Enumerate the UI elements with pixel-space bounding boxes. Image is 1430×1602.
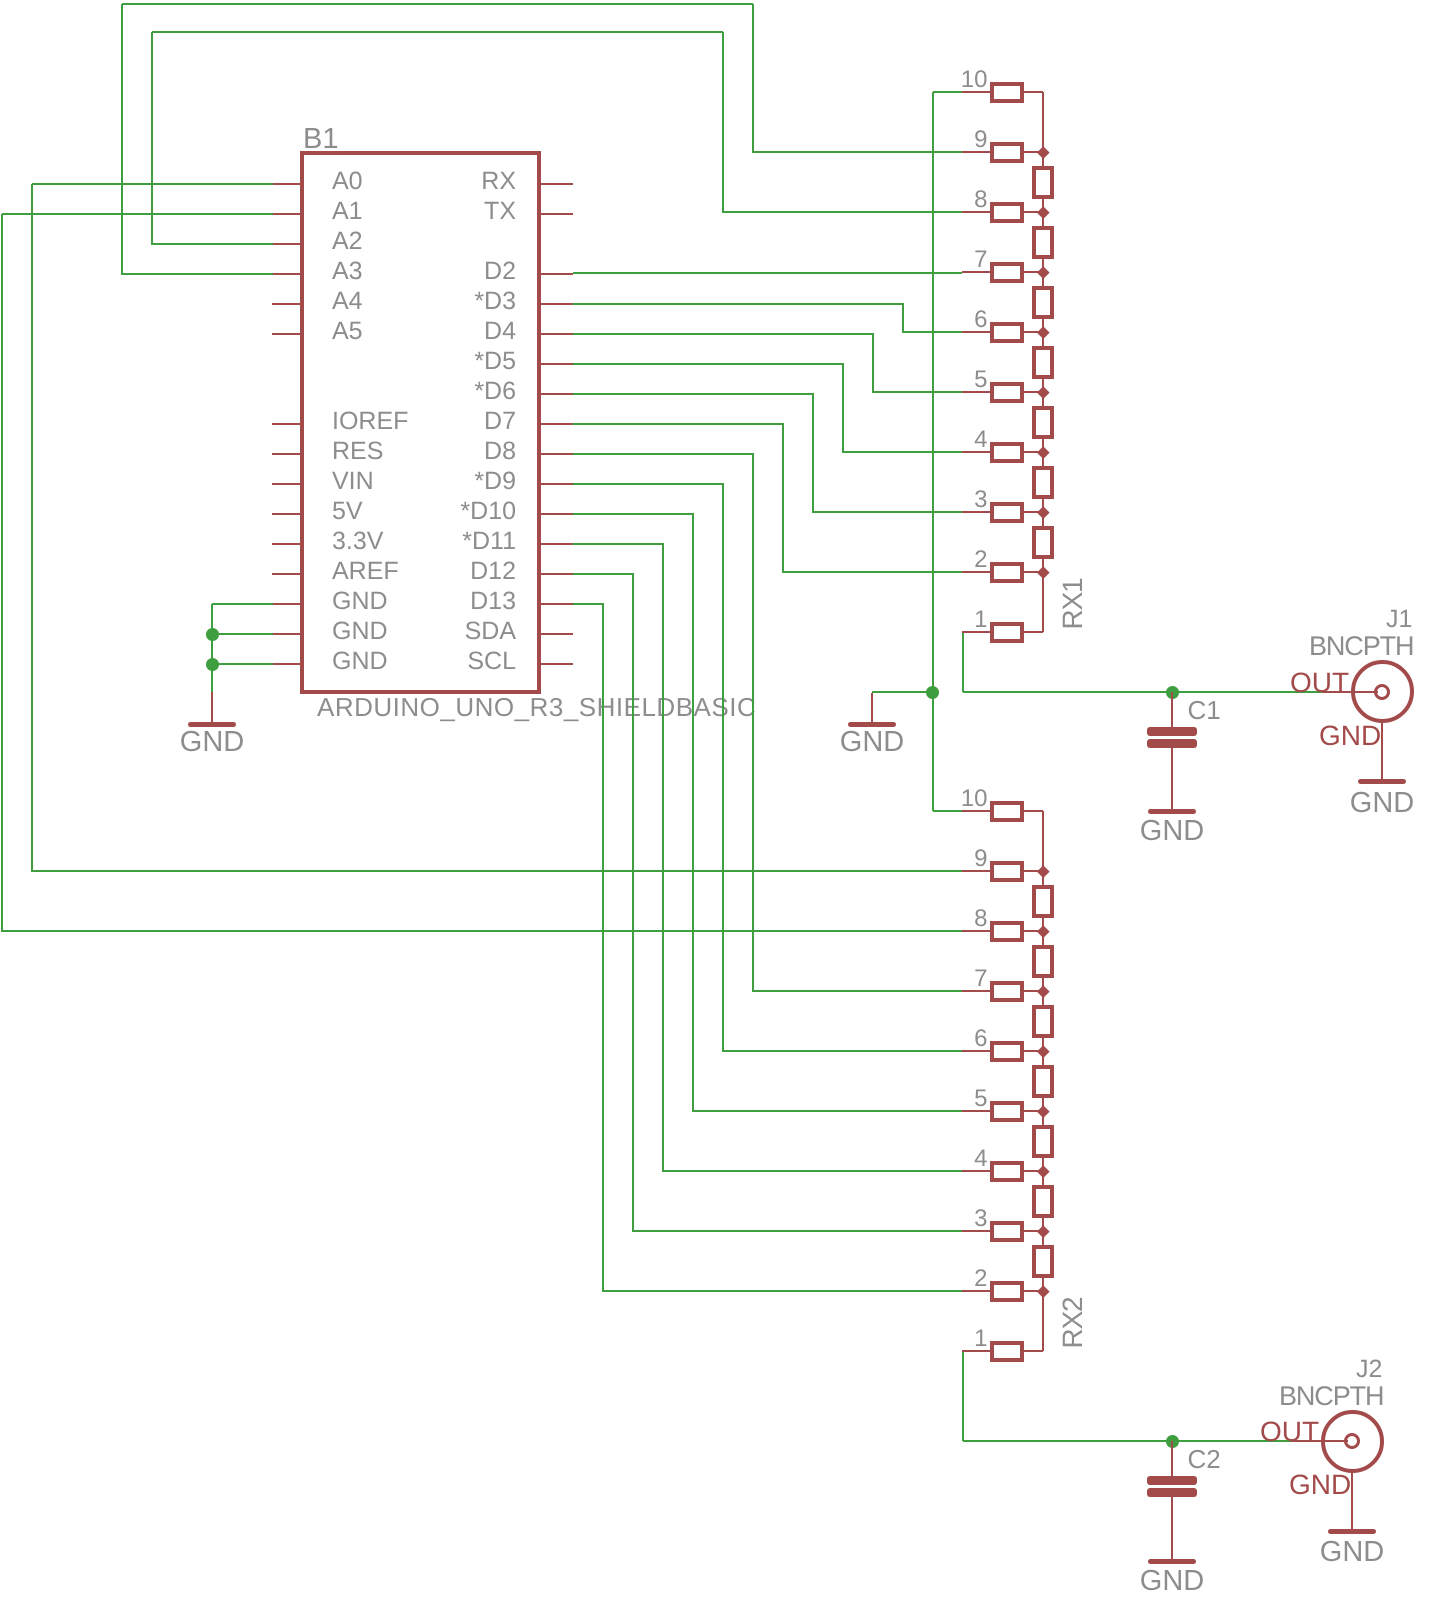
- label J2: [1356, 1357, 1382, 1382]
- resistor RX1 element 8 right stub: [1024, 211, 1043, 213]
- pin stub 5V (left): [272, 513, 300, 515]
- pin stub D7 (right): [541, 423, 573, 425]
- resistor RX2 series element between taps 4-3: [1032, 1185, 1054, 1218]
- resistor RX1 element 2 right stub: [1024, 571, 1043, 573]
- ground symbol below C1: [1171, 748, 1173, 809]
- ground symbol at ladder terminator: [871, 693, 873, 722]
- pin stub A2 (left): [272, 243, 300, 245]
- label RX2: [1060, 1263, 1086, 1383]
- pin number 7 of RX1: [688, 248, 988, 272]
- pin label D13: [216, 589, 516, 614]
- resistor RX1 element 7 body: [990, 262, 1024, 283]
- resistor RX2 element 5 right stub: [1024, 1110, 1043, 1112]
- resistor RX1 element 1 left stub: [962, 631, 990, 633]
- resistor RX2 series element between taps 9-8: [1032, 885, 1054, 918]
- pin label 3.3V: [332, 529, 383, 554]
- wire net A3 to RX1 pin 9: [122, 273, 273, 275]
- pin label VIN: [332, 469, 374, 494]
- junction RX2 tap 4: [1037, 1165, 1049, 1177]
- RX1 ladder chain wire: [1042, 92, 1044, 632]
- resistor RX1 series element between taps 4-3: [1032, 466, 1054, 499]
- pin stub GND (left): [272, 633, 300, 635]
- pin stub RX (right): [541, 183, 573, 185]
- pin label *D10: [216, 499, 516, 524]
- resistor RX2 series element between taps 5-4: [1032, 1125, 1054, 1158]
- wire net D9 to RX2 pin 6: [573, 483, 724, 485]
- pin label AREF: [332, 559, 399, 584]
- resistor RX1 element 9 right stub: [1024, 151, 1043, 153]
- pin label *D6: [216, 379, 516, 404]
- pin stub 3.3V (left): [272, 543, 300, 545]
- pin number 2 of RX2: [688, 1267, 988, 1291]
- resistor RX1 element 4 body: [990, 442, 1024, 463]
- pin label OUT of J1: [1290, 669, 1349, 697]
- resistor RX1 element 5 right stub: [1024, 391, 1043, 393]
- junction at B1 GND pin 2: [206, 628, 219, 641]
- pin stub D12 (right): [541, 573, 573, 575]
- capacitor C2: [1171, 1441, 1173, 1476]
- pin label D2: [216, 259, 516, 284]
- resistor RX1 element 1 body: [990, 622, 1024, 643]
- pin label A3: [332, 259, 363, 284]
- pin stub D13 (right): [541, 603, 573, 605]
- resistor RX1 element 7 right stub: [1024, 271, 1043, 273]
- wire net D8 to RX2 pin 7: [573, 453, 754, 455]
- resistor RX1 element 10 body: [990, 82, 1024, 103]
- junction GND net: [926, 686, 939, 699]
- pin label GND of J2: [1289, 1471, 1351, 1499]
- pin label A5: [332, 319, 363, 344]
- ground symbol below J2: [1351, 1472, 1353, 1529]
- wire net A1 to RX2 pin 8: [2, 213, 273, 215]
- resistor RX2 element 3 body: [990, 1221, 1024, 1242]
- junction RX1 tap 2: [1037, 566, 1049, 578]
- resistor RX2 element 7 right stub: [1024, 990, 1043, 992]
- pin label IOREF: [332, 409, 408, 434]
- pin number 5 of RX1: [688, 368, 988, 392]
- resistor RX1 series element between taps 5-4: [1032, 406, 1054, 439]
- pin stub *D5 (right): [541, 363, 573, 365]
- wire net D3 to RX1 pin 6: [573, 303, 904, 305]
- junction RX1 tap 4: [1037, 446, 1049, 458]
- resistor RX1 element 6 right stub: [1024, 331, 1043, 333]
- junction RX1 tap 8: [1037, 206, 1049, 218]
- pin number 5 of RX2: [688, 1087, 988, 1111]
- wire net A2 to RX1 pin 8: [152, 243, 273, 245]
- IC B1 ARDUINO_UNO_R3_SHIELDBASIC body: [300, 151, 541, 694]
- pin label D12: [216, 559, 516, 584]
- pin stub *D11 (right): [541, 543, 573, 545]
- wire net D4 to RX1 pin 5: [573, 333, 874, 335]
- pin stub *D9 (right): [541, 483, 573, 485]
- ground symbol below C2: [1171, 1497, 1173, 1559]
- junction RX1 tap 3: [1037, 506, 1049, 518]
- pin stub *D10 (right): [541, 513, 573, 515]
- pin stub *D3 (right): [541, 303, 573, 305]
- pin label A4: [332, 289, 363, 314]
- resistor RX2 element 1 body: [990, 1341, 1024, 1362]
- pin label GND: [332, 649, 388, 674]
- resistor RX2 element 4 body: [990, 1161, 1024, 1182]
- pin label GND: [332, 589, 388, 614]
- pin label D8: [216, 439, 516, 464]
- pin number 3 of RX2: [688, 1207, 988, 1231]
- pin label A2: [332, 229, 363, 254]
- pin stub GND (left): [272, 663, 300, 665]
- wire RX2 output to C2/J2: [962, 1352, 964, 1441]
- pin number 2 of RX1: [688, 548, 988, 572]
- resistor RX1 element 5 body: [990, 382, 1024, 403]
- capacitor C1: [1171, 692, 1173, 727]
- wire GND net at B1: [212, 603, 273, 605]
- resistor RX1 element 4 left stub: [962, 451, 990, 453]
- pin label OUT of J2: [1260, 1418, 1319, 1446]
- pin number 8 of RX1: [688, 188, 988, 212]
- resistor RX1 element 2 left stub: [962, 571, 990, 573]
- junction RX2 tap 7: [1037, 985, 1049, 997]
- junction RX1 tap 9: [1037, 146, 1049, 158]
- resistor RX2 element 9 body: [990, 861, 1024, 882]
- junction RX1 tap 7: [1037, 266, 1049, 278]
- resistor RX1 element 7 left stub: [962, 271, 990, 273]
- resistor RX2 series element between taps 3-2: [1032, 1245, 1054, 1278]
- RX2 ladder chain wire: [1042, 811, 1044, 1351]
- pin number 6 of RX2: [688, 1027, 988, 1051]
- pin label *D11: [216, 529, 516, 554]
- resistor RX1 element 8 body: [990, 202, 1024, 223]
- pin label TX: [216, 199, 516, 224]
- label J1: [1386, 607, 1412, 632]
- pin number 9 of RX2: [688, 847, 988, 871]
- pin stub A0 (left): [272, 183, 300, 185]
- pin stub SDA (right): [541, 633, 573, 635]
- resistor RX2 element 5 body: [990, 1101, 1024, 1122]
- pin label D4: [216, 319, 516, 344]
- value BNCPTH of J1: [1309, 633, 1413, 660]
- resistor RX2 element 3 left stub: [962, 1230, 990, 1232]
- pin stub RES (left): [272, 453, 300, 455]
- pin label A1: [332, 199, 363, 224]
- resistor RX1 element 6 left stub: [962, 331, 990, 333]
- junction RX2 tap 2: [1037, 1285, 1049, 1297]
- junction RX2 tap 9: [1037, 865, 1049, 877]
- resistor RX2 element 10 right stub: [1024, 810, 1043, 812]
- resistor RX2 series element between taps 7-6: [1032, 1005, 1054, 1038]
- pin stub A3 (left): [272, 273, 300, 275]
- resistor RX2 element 6 body: [990, 1041, 1024, 1062]
- pin label 5V: [332, 499, 363, 524]
- resistor RX2 element 10 body: [990, 801, 1024, 822]
- junction at C1: [1166, 686, 1179, 699]
- pin stub A4 (left): [272, 303, 300, 305]
- junction at C2: [1166, 1435, 1179, 1448]
- resistor RX2 element 6 left stub: [962, 1050, 990, 1052]
- pin label D7: [216, 409, 516, 434]
- resistor RX2 element 8 right stub: [1024, 930, 1043, 932]
- resistor RX2 element 7 left stub: [962, 990, 990, 992]
- resistor RX2 element 6 right stub: [1024, 1050, 1043, 1052]
- resistor RX2 element 8 body: [990, 921, 1024, 942]
- pin stub VIN (left): [272, 483, 300, 485]
- wire net D12 to RX2 pin 3: [573, 573, 634, 575]
- pin stub GND (left): [272, 603, 300, 605]
- junction RX2 tap 3: [1037, 1225, 1049, 1237]
- label B1: [303, 125, 338, 154]
- pin number 9 of RX1: [688, 128, 988, 152]
- pin label GND of J1: [1319, 722, 1381, 750]
- junction RX2 tap 8: [1037, 925, 1049, 937]
- resistor RX2 element 4 right stub: [1024, 1170, 1043, 1172]
- resistor RX2 series element between taps 6-5: [1032, 1065, 1054, 1098]
- wire RX1 pin 10 stub: [933, 91, 963, 93]
- pin number 4 of RX1: [688, 428, 988, 452]
- ground symbol below J1: [1381, 723, 1383, 779]
- wire net D5 to RX1 pin 4: [573, 363, 844, 365]
- wire RX1 output to C1/J1: [962, 632, 964, 692]
- resistor RX1 element 5 left stub: [962, 391, 990, 393]
- resistor RX2 element 1 right stub: [1024, 1350, 1043, 1352]
- value ARDUINO_UNO_R3_SHIELDBASIC: [317, 694, 756, 720]
- connector J2 BNCPTH: [1291, 1440, 1348, 1442]
- label RX1: [1060, 544, 1086, 664]
- resistor RX1 element 6 body: [990, 322, 1024, 343]
- resistor RX2 element 9 left stub: [962, 870, 990, 872]
- pin stub TX (right): [541, 213, 573, 215]
- pin stub A5 (left): [272, 333, 300, 335]
- pin number 10 of RX2: [688, 787, 988, 811]
- value BNCPTH of J2: [1279, 1383, 1383, 1410]
- pin label *D9: [216, 469, 516, 494]
- pin number 7 of RX2: [688, 967, 988, 991]
- pin label *D5: [216, 349, 516, 374]
- junction RX1 tap 6: [1037, 326, 1049, 338]
- pin number 10 of RX1: [688, 68, 988, 92]
- resistor RX2 element 4 left stub: [962, 1170, 990, 1172]
- resistor RX2 element 2 body: [990, 1281, 1024, 1302]
- resistor RX1 element 3 left stub: [962, 511, 990, 513]
- resistor RX2 element 5 left stub: [962, 1110, 990, 1112]
- resistor RX1 element 10 right stub: [1024, 91, 1043, 93]
- pin stub A1 (left): [272, 213, 300, 215]
- wire net D7 to RX1 pin 2: [573, 423, 784, 425]
- resistor RX2 element 9 right stub: [1024, 870, 1043, 872]
- pin number 1 of RX1: [688, 608, 988, 632]
- wire net D2 to RX1 pin 7: [573, 272, 962, 274]
- wire GND net to ladder terminator: [872, 691, 933, 693]
- pin stub SCL (right): [541, 663, 573, 665]
- resistor RX1 element 9 body: [990, 142, 1024, 163]
- resistor RX2 element 7 body: [990, 981, 1024, 1002]
- connector J1 BNCPTH: [1322, 691, 1378, 693]
- junction at B1 GND pin 3: [206, 658, 219, 671]
- junction RX2 tap 5: [1037, 1105, 1049, 1117]
- resistor RX1 element 4 right stub: [1024, 451, 1043, 453]
- resistor RX2 element 3 right stub: [1024, 1230, 1043, 1232]
- pin number 4 of RX2: [688, 1147, 988, 1171]
- resistor RX1 element 9 left stub: [962, 151, 990, 153]
- pin number 8 of RX2: [688, 907, 988, 931]
- resistor RX2 element 1 left stub: [962, 1350, 990, 1352]
- wire RX2 pin 10 stub: [933, 810, 963, 812]
- wire net D6 to RX1 pin 3: [573, 393, 814, 395]
- ground symbol at B1 GND: [211, 692, 213, 722]
- pin label RES: [332, 439, 383, 464]
- resistor RX1 element 2 body: [990, 562, 1024, 583]
- resistor RX1 element 10 left stub: [962, 91, 990, 93]
- resistor RX1 element 1 right stub: [1024, 631, 1043, 633]
- pin stub D4 (right): [541, 333, 573, 335]
- resistor RX1 series element between taps 7-6: [1032, 286, 1054, 319]
- resistor RX1 series element between taps 3-2: [1032, 526, 1054, 559]
- wire GND vertical RX1-10/RX2-10: [932, 92, 934, 811]
- resistor RX1 series element between taps 6-5: [1032, 346, 1054, 379]
- pin stub D8 (right): [541, 453, 573, 455]
- pin label A0: [332, 169, 363, 194]
- resistor RX2 element 10 left stub: [962, 810, 990, 812]
- pin stub AREF (left): [272, 573, 300, 575]
- resistor RX1 series element between taps 9-8: [1032, 166, 1054, 199]
- resistor RX2 series element between taps 8-7: [1032, 945, 1054, 978]
- resistor RX1 element 3 right stub: [1024, 511, 1043, 513]
- pin stub IOREF (left): [272, 423, 300, 425]
- resistor RX2 element 8 left stub: [962, 930, 990, 932]
- wire net A0 to RX2 pin 9: [32, 183, 273, 185]
- wire net D11 to RX2 pin 4: [573, 543, 664, 545]
- pin label SCL: [216, 649, 516, 674]
- pin number 1 of RX2: [688, 1327, 988, 1351]
- junction RX1 tap 5: [1037, 386, 1049, 398]
- pin number 6 of RX1: [688, 308, 988, 332]
- resistor RX2 element 2 right stub: [1024, 1290, 1043, 1292]
- wire net D13 to RX2 pin 2: [573, 603, 604, 605]
- resistor RX2 element 2 left stub: [962, 1290, 990, 1292]
- wire net D10 to RX2 pin 5: [573, 513, 694, 515]
- pin label SDA: [216, 619, 516, 644]
- resistor RX1 element 3 body: [990, 502, 1024, 523]
- pin label GND: [332, 619, 388, 644]
- junction RX2 tap 6: [1037, 1045, 1049, 1057]
- pin label RX: [216, 169, 516, 194]
- pin number 3 of RX1: [688, 488, 988, 512]
- resistor RX1 series element between taps 8-7: [1032, 226, 1054, 259]
- resistor RX1 element 8 left stub: [962, 211, 990, 213]
- pin label *D3: [216, 289, 516, 314]
- pin stub D2 (right): [541, 273, 573, 275]
- pin stub *D6 (right): [541, 393, 573, 395]
